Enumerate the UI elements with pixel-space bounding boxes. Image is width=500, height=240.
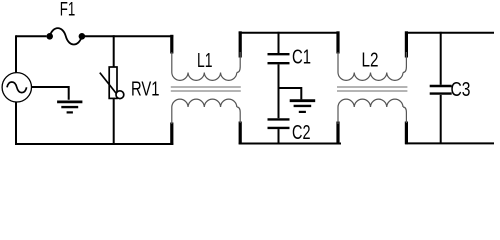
svg-text:C3: C3: [451, 79, 471, 101]
svg-text:L1: L1: [197, 50, 213, 72]
svg-text:F1: F1: [60, 0, 76, 21]
svg-text:C1: C1: [292, 47, 311, 69]
svg-text:L2: L2: [362, 50, 379, 72]
svg-text:RV1: RV1: [131, 79, 160, 101]
svg-text:C2: C2: [292, 122, 311, 144]
